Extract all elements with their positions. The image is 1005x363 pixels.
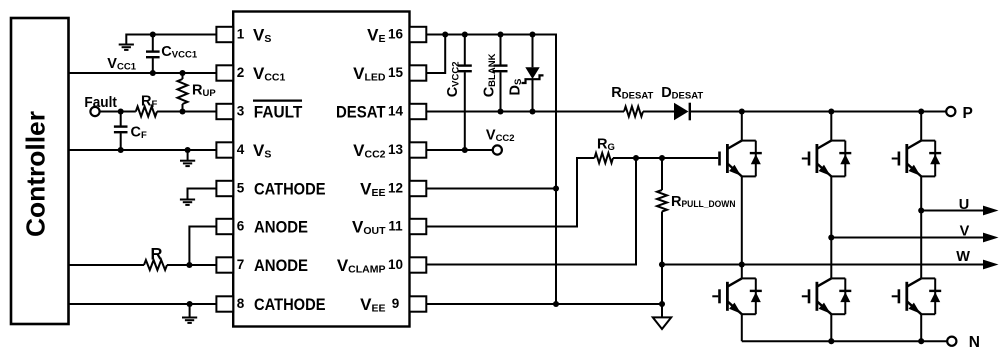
svg-text:11: 11: [388, 219, 403, 234]
svg-text:U: U: [959, 197, 969, 213]
svg-text:8: 8: [237, 296, 245, 311]
svg-text:3: 3: [237, 104, 245, 119]
svg-text:ANODE: ANODE: [254, 256, 308, 275]
svg-text:1: 1: [237, 27, 245, 42]
svg-text:4: 4: [237, 142, 245, 157]
svg-text:2: 2: [237, 65, 245, 80]
svg-text:12: 12: [388, 181, 403, 196]
svg-text:16: 16: [388, 27, 404, 42]
svg-text:DESAT: DESAT: [336, 102, 386, 121]
svg-text:10: 10: [388, 257, 403, 272]
svg-text:V: V: [960, 223, 970, 239]
svg-text:W: W: [956, 249, 970, 265]
svg-text:FAULT: FAULT: [254, 102, 303, 121]
svg-text:ANODE: ANODE: [254, 217, 308, 236]
svg-text:14: 14: [388, 104, 404, 119]
svg-text:Fault: Fault: [84, 95, 117, 111]
svg-text:R: R: [151, 246, 163, 264]
svg-text:CATHODE: CATHODE: [254, 295, 326, 314]
svg-text:CATHODE: CATHODE: [254, 179, 326, 198]
svg-text:P: P: [963, 105, 973, 122]
svg-text:N: N: [969, 334, 980, 351]
svg-text:6: 6: [237, 219, 245, 234]
svg-text:Controller: Controller: [20, 111, 50, 237]
svg-text:15: 15: [388, 65, 404, 80]
svg-text:7: 7: [237, 257, 245, 272]
svg-text:9: 9: [392, 296, 400, 311]
svg-text:13: 13: [388, 142, 404, 157]
svg-text:5: 5: [237, 181, 245, 196]
